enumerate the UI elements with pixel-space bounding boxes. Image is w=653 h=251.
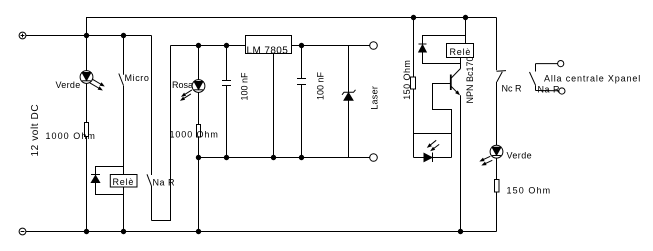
resistor R1 1000 Ohm [85,123,89,137]
terminal Laser - [370,154,378,162]
svg-text:Na R: Na R [153,178,176,188]
diode D5 (K1 flyback) [91,175,100,183]
wire right branch x=496.5 [496,18,498,232]
svg-text:100 nF: 100 nF [316,71,326,100]
node junction A-top [84,33,88,37]
svg-text:Verde: Verde [56,80,81,90]
svg-text:Rosa: Rosa [172,80,193,90]
node junction C1-bottom [224,155,228,159]
wire U1 ground pin x=273 [273,54,275,158]
node junction C1-top [224,43,228,47]
diode D4 (K2 flyback) loop [419,36,466,64]
capacitor C2 100 nF [297,46,306,158]
wire top bus y=17.5 [87,18,497,36]
node junction B-top [121,33,125,37]
svg-text:Relè: Relè [450,47,472,57]
switch Nc R contact tick [497,70,507,73]
svg-text:Micro: Micro [125,73,150,83]
switch Na R (right, to panel) [530,64,559,91]
relay K2 coil box Relè [447,44,474,58]
svg-text:Laser: Laser [370,86,380,110]
svg-text:Verde: Verde [507,151,533,161]
terminal - (12V negative) [19,228,26,235]
terminal Laser + [370,42,378,50]
wire left branch x=86 [86,36,88,232]
node junction B-bottom [121,229,125,233]
svg-text:Alla centrale Xpanel: Alla centrale Xpanel [544,74,641,84]
wire relay K2 feed x=465 [465,18,467,45]
relay K1 coil box Relè [110,175,137,188]
node junction N-top [463,15,467,19]
node junction U1-gnd [271,155,275,159]
switch Micro branch wire x=123 [123,36,125,232]
node junction C2-bottom [299,155,303,159]
switch Nc R blade [497,72,502,82]
switch Micro blade [119,74,124,86]
LED D7 Verde [479,145,503,165]
zener diode D3 [342,46,356,158]
terminal Xpanel upper [558,61,564,67]
switch Na R blade (left) [147,174,152,186]
resistor R4 150 Ohm [495,180,500,193]
svg-text:150 Ohm: 150 Ohm [402,60,412,100]
relay K1 freewheel loop [96,167,124,195]
wire U-link bottom y=220.5 [152,46,171,221]
resistor R3 150 Ohm [411,77,416,89]
svg-text:12 volt DC: 12 volt DC [30,104,41,157]
node junction E-bottom [196,229,200,233]
wire Rosa branch x=198.5 [198,46,200,232]
terminal Xpanel lower [559,88,565,94]
wire 5V rail y=45.5 [171,45,370,47]
svg-text:150 Ohm: 150 Ohm [507,186,552,196]
LED D1 Verde [80,71,105,91]
terminal + (12V positive) [19,32,26,39]
wire branch K x=413 [413,18,415,158]
svg-text:1000 Ohm: 1000 Ohm [170,130,219,140]
svg-text:NPN Bc170: NPN Bc170 [465,56,475,103]
regulator U1 LM 7805 [246,36,292,57]
node junction C2-top [299,43,303,47]
svg-text:Na R: Na R [538,85,561,95]
wire Q1 base link [433,84,452,134]
svg-text:Nc R: Nc R [502,84,523,94]
node junction K-top [411,15,415,19]
svg-text:100 nF: 100 nF [240,72,250,101]
wire 0V return y=157.5 [199,157,370,159]
wire top feed y=35.5 [26,35,152,37]
node junction E-top [196,43,200,47]
svg-text:Relè: Relè [113,177,135,187]
switch Na R (left) branch x=151.5 [151,36,153,221]
resistor R2 1000 Ohm [197,125,201,138]
svg-text:1000 Ohm: 1000 Ohm [46,131,96,141]
wire bottom bus y=231.5 [26,231,497,233]
svg-text:LM 7805: LM 7805 [247,46,289,57]
node junction A-bottom [84,229,88,233]
LED D2 Rosa [180,80,205,101]
node junction Q1-emitter-bottom [458,229,462,233]
photodiode D6 loop [414,134,452,163]
node junction E-mid [196,155,200,159]
capacitor C1 100 nF [222,46,231,158]
transistor Q1 NPN Bc170 [451,58,461,232]
